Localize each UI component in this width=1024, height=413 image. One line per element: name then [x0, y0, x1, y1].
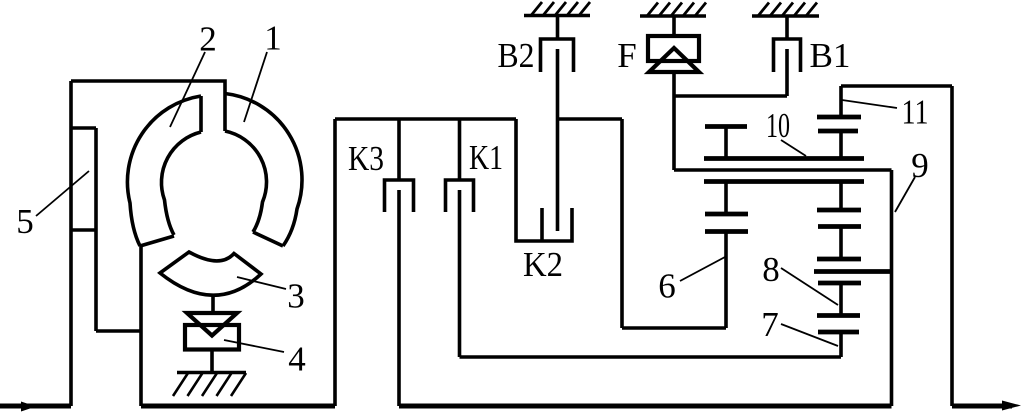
svg-text:B1: B1 — [810, 36, 851, 75]
wire: link to gear 6 shaft — [622, 326, 726, 330]
wire: rail from K2 shaft to right — [558, 117, 623, 121]
gear 8 column bar d — [818, 281, 861, 286]
clutch K1 inner shaft — [458, 190, 462, 357]
wire: F shaft down — [672, 72, 676, 170]
gear 6 lower shaft — [724, 232, 728, 329]
leader line 6 — [680, 257, 725, 281]
one-way clutch F ground hatching — [647, 3, 706, 17]
wire: B1 inner shaft — [785, 49, 789, 96]
wire: bottom right rail — [952, 404, 1012, 409]
brake B2 fork — [541, 39, 574, 72]
wire: converter box right wall — [333, 119, 337, 406]
svg-text:4: 4 — [288, 340, 306, 379]
gear 8 long bar to shaft 9 — [814, 269, 893, 274]
wire: converter box bottom — [141, 404, 335, 409]
wire: top rail from housing to converter notch — [71, 81, 225, 131]
converter impeller arc 1 end cap — [253, 232, 283, 246]
brake B1 stem — [785, 16, 789, 39]
wire: right output drum vertical — [950, 86, 954, 406]
clutch K3 inner shaft — [397, 190, 401, 406]
wire: stub upper 5 — [71, 126, 96, 130]
gear 11 upper bar — [817, 115, 861, 120]
gear 6 lower bar — [705, 229, 748, 234]
leader line 7 — [781, 324, 838, 346]
wire: F to B1 connector — [674, 94, 787, 98]
leader line 10 — [781, 140, 806, 156]
wire: bottom output rail — [399, 404, 892, 409]
gear 7 shaft — [839, 332, 843, 357]
wire: shaft 9 vertical — [890, 170, 894, 406]
leader line 1 — [244, 52, 267, 122]
wire: stub from 5 to converter box wall — [96, 329, 141, 333]
gear 11 upper shaft — [839, 86, 843, 117]
brake B1 ground hatching — [758, 3, 817, 17]
component 5: pump drive double line — [94, 128, 98, 331]
svg-text:B2: B2 — [498, 36, 535, 75]
wire: carrier shaft 9 horizontal — [674, 168, 892, 172]
svg-text:3: 3 — [287, 277, 305, 316]
ground under 4 — [177, 371, 246, 375]
gear 11 lower bar — [818, 129, 858, 134]
node: output arrow — [1002, 401, 1021, 411]
gear 11 lower stub — [839, 131, 843, 159]
clutch K3 outer stem — [397, 119, 401, 180]
wire: K1 to gear 7 link — [460, 355, 842, 359]
brake B1 fork — [774, 39, 801, 72]
wire: left housing vertical — [69, 81, 73, 406]
brake B1 ground — [752, 14, 819, 18]
wire: ring gear 11 top link — [841, 84, 952, 88]
ground under 4 hatching — [173, 373, 246, 396]
converter turbine arc 2 inner — [161, 132, 201, 235]
svg-text:K1: K1 — [469, 138, 503, 177]
gear 8 column bar a — [817, 208, 861, 213]
carrier long bar lower — [704, 179, 864, 184]
wire: B2-K2 shaft — [556, 49, 560, 231]
gear 7 upper bar — [817, 313, 860, 318]
node: input arrow — [21, 402, 36, 412]
one-way clutch 4 triangle — [187, 313, 237, 336]
svg-text:5: 5 — [16, 202, 34, 241]
svg-text:10: 10 — [766, 106, 790, 145]
one-way clutch F ground — [640, 14, 706, 18]
clutch K2 drum — [516, 119, 572, 241]
converter turbine arc 2 notch edge — [199, 96, 203, 132]
svg-text:6: 6 — [658, 267, 676, 306]
svg-text:2: 2 — [199, 20, 217, 59]
wire: stator shaft — [211, 296, 215, 314]
clutch K3 fork — [385, 180, 414, 212]
one-way clutch F triangle — [649, 48, 699, 72]
wire: input shaft bottom-left — [0, 404, 71, 409]
leader line 5 — [36, 171, 89, 216]
converter turbine arc 2 outer — [127, 96, 201, 246]
gear 6 upper bar — [705, 212, 748, 217]
stator 3 — [160, 252, 261, 295]
svg-text:11: 11 — [902, 93, 929, 132]
svg-text:K2: K2 — [523, 245, 563, 284]
gear 8 lower shaft — [839, 283, 843, 316]
leader line 9 — [895, 177, 915, 212]
svg-text:1: 1 — [264, 19, 282, 58]
clutch K1 outer stem — [458, 119, 462, 180]
wire: vertical to gear 6 — [620, 119, 624, 328]
leader line 4 — [224, 340, 284, 352]
gear 8 column bar b — [818, 224, 861, 229]
gear 10 bar — [705, 124, 747, 129]
gear 8 column upper shaft — [839, 182, 843, 211]
brake B2 ground hatching — [531, 2, 590, 16]
converter impeller arc 1 outer — [225, 94, 302, 247]
leader line 3 — [237, 277, 286, 289]
wire: shaft 4 to ground — [210, 350, 214, 373]
converter turbine arc 2 end cap — [140, 236, 174, 246]
clutch K1 fork — [446, 180, 474, 212]
brake B2 ground — [524, 14, 590, 18]
leader line 2 — [170, 52, 205, 127]
one-way clutch F box — [648, 36, 699, 61]
converter impeller arc 1 inner — [225, 131, 267, 232]
gear 10 stub — [724, 127, 728, 159]
svg-text:8: 8 — [762, 250, 780, 289]
wire: turbine output vertical — [139, 246, 143, 406]
leader line 8 — [781, 268, 838, 305]
gear 6 upper shaft — [724, 182, 728, 215]
gear 8 column mid shaft — [839, 227, 843, 260]
gear 7 lower bar — [818, 330, 859, 335]
wire: clutch rail — [335, 117, 516, 121]
one-way clutch F stem — [672, 16, 676, 36]
clutch K2 inner leg — [540, 208, 544, 241]
svg-text:K3: K3 — [348, 139, 384, 178]
one-way clutch 4 box — [185, 325, 239, 350]
svg-text:F: F — [617, 36, 636, 75]
svg-text:9: 9 — [911, 146, 929, 185]
brake B2 stem — [556, 16, 560, 40]
carrier long bar upper — [704, 156, 864, 161]
gear 8 column bar c — [817, 257, 861, 262]
svg-text:7: 7 — [761, 305, 779, 344]
wire: stub lower 5 — [71, 228, 96, 232]
leader line 11 — [842, 100, 897, 108]
